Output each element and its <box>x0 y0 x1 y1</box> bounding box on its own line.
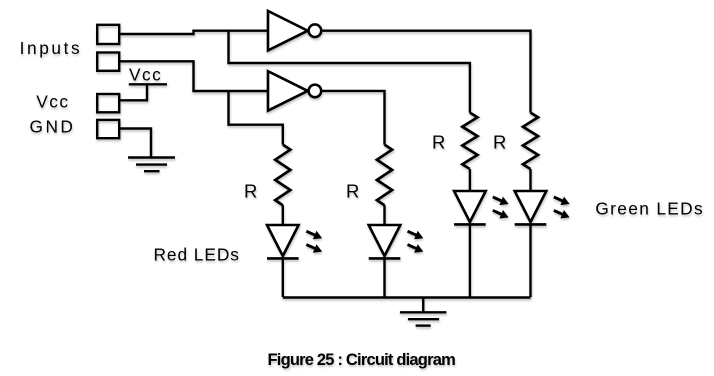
inverter U1 <box>268 11 321 50</box>
wire inverter U1 output to resistor R4 <box>322 31 530 113</box>
wire inverter U2 output to resistor R2 <box>322 91 384 145</box>
bottom rail wire <box>283 296 531 298</box>
input terminal 1 <box>97 25 119 44</box>
svg-text:Vcc: Vcc <box>36 92 69 112</box>
svg-text:Green LEDs: Green LEDs <box>595 198 704 218</box>
Vcc power symbol bar <box>129 83 167 85</box>
resistor R3 <box>462 113 477 169</box>
LED D1 (red) <box>267 225 322 258</box>
wire resistor R3 to LED D3 <box>469 169 471 191</box>
Vcc terminal <box>97 94 119 112</box>
resistor R1 <box>275 145 290 206</box>
LED D3 (green) <box>454 191 508 224</box>
wire resistor R4 to LED D4 <box>529 169 531 191</box>
wire input 2 to inverter U2 <box>119 61 268 91</box>
input terminal 2 <box>97 53 119 71</box>
resistor R4 <box>523 113 538 169</box>
svg-text:GND: GND <box>30 116 76 136</box>
svg-text:Figure 25 : Circuit diagram: Figure 25 : Circuit diagram <box>268 351 456 369</box>
svg-text:R: R <box>244 180 257 201</box>
svg-text:R: R <box>346 180 359 201</box>
wire input 1 to inverter U1 <box>119 31 268 34</box>
wire rail to main ground <box>422 297 424 312</box>
wire tap from input 1 down to resistor R3 <box>229 31 470 113</box>
LED D2 (red) <box>369 225 424 258</box>
svg-text:R: R <box>432 132 445 153</box>
wire LED D3 to bottom rail <box>469 224 471 297</box>
wire LED D1 to bottom rail <box>282 258 284 297</box>
wire resistor R2 to LED D2 <box>383 205 385 225</box>
svg-text:Inputs: Inputs <box>20 38 83 58</box>
inverter U2 <box>268 71 321 110</box>
svg-text:R: R <box>493 132 506 153</box>
wire resistor R1 to LED D1 <box>282 205 284 225</box>
wire Vcc bar to Vcc terminal <box>119 84 147 100</box>
ground symbol (left) <box>128 158 175 172</box>
GND terminal <box>97 120 119 138</box>
wire GND terminal to ground <box>119 129 151 158</box>
svg-text:Vcc: Vcc <box>129 65 162 85</box>
wire LED D2 to bottom rail <box>383 258 385 297</box>
wire LED D4 to bottom rail <box>529 224 531 297</box>
ground symbol (main) <box>400 312 447 325</box>
LED D4 (green) <box>515 191 570 224</box>
wire tap from input 2 down to resistor R1 <box>229 91 283 145</box>
svg-text:Red LEDs: Red LEDs <box>154 245 240 265</box>
resistor R2 <box>377 145 392 206</box>
